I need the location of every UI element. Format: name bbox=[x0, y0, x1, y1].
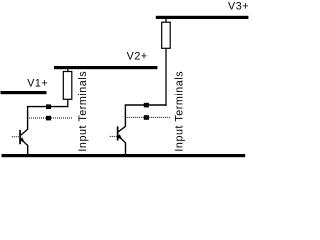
svg-text:V2+: V2+ bbox=[127, 50, 148, 62]
svg-text:Input Terminals: Input Terminals bbox=[174, 71, 186, 151]
Q2 emitter slant bbox=[118, 136, 125, 143]
Q2 emitter wire to ground bbox=[125, 143, 127, 155]
wire (dashed): Q2 stage input line bbox=[127, 116, 170, 118]
wire: Q1 collector to R1 bbox=[28, 107, 69, 130]
svg-text:Input Terminals: Input Terminals bbox=[77, 71, 89, 151]
supply rail V3+ bbox=[156, 16, 249, 19]
Q1 emitter slant bbox=[21, 139, 28, 146]
supply rail V2+ bbox=[54, 66, 157, 69]
Q2 base dashed stub bbox=[110, 135, 117, 137]
Q1 emitter arrow bbox=[19, 137, 25, 142]
wire: Q2 collector to R2 bbox=[125, 105, 166, 127]
transistor Q1 bbox=[12, 129, 28, 154]
resistor R2 bbox=[162, 19, 171, 106]
svg-text:V3+: V3+ bbox=[228, 1, 249, 13]
terminal dot stage1 lower bbox=[46, 116, 51, 121]
svg-text:V1+: V1+ bbox=[27, 77, 48, 89]
Q1 base bar bbox=[19, 130, 21, 144]
Q2 base bar bbox=[117, 126, 119, 140]
terminal dot stage2 lower bbox=[144, 115, 149, 120]
Q1 collector slant bbox=[21, 129, 28, 135]
wire (dashed): Q1 stage input line bbox=[29, 117, 73, 119]
terminal dot stage1 upper bbox=[46, 104, 51, 109]
Q2 emitter arrow bbox=[117, 134, 123, 139]
supply rail V1+ bbox=[1, 91, 47, 94]
Q1 base dashed stub bbox=[12, 136, 20, 138]
Q2 collector slant bbox=[118, 126, 125, 132]
resistor R1 bbox=[63, 69, 72, 107]
terminal dot stage2 upper bbox=[144, 103, 149, 108]
ground rail bbox=[2, 154, 246, 157]
transistor Q2 bbox=[110, 126, 126, 154]
Q1 emitter wire to ground bbox=[27, 145, 29, 154]
